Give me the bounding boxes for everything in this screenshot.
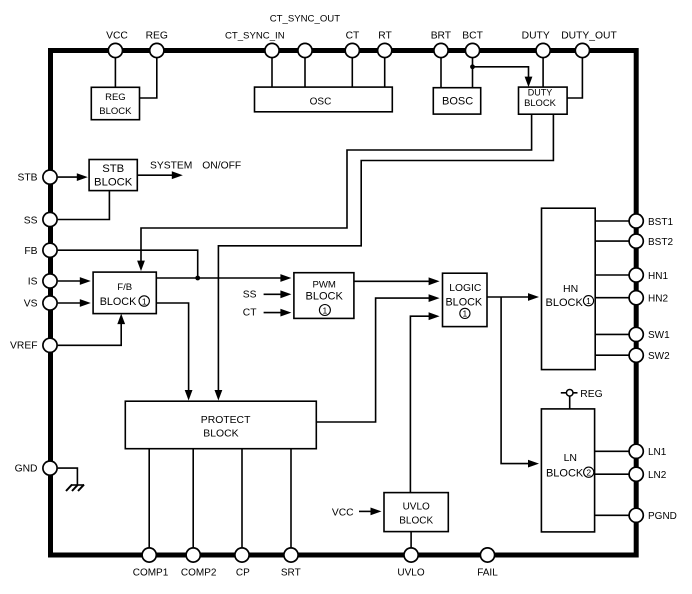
svg-text:BLOCK: BLOCK — [399, 515, 433, 526]
svg-text:CT_SYNC_OUT: CT_SYNC_OUT — [270, 14, 341, 25]
svg-text:UVLO: UVLO — [397, 567, 424, 578]
svg-text:COMP1: COMP1 — [133, 567, 169, 578]
svg-text:PROTECT: PROTECT — [201, 415, 251, 426]
svg-text:2: 2 — [586, 467, 591, 477]
svg-text:STB: STB — [102, 163, 124, 175]
svg-text:SYSTEM: SYSTEM — [150, 160, 192, 171]
svg-text:BLOCK: BLOCK — [306, 290, 344, 302]
svg-text:CT: CT — [243, 308, 257, 319]
svg-text:DUTY: DUTY — [522, 30, 550, 41]
svg-text:BLOCK: BLOCK — [546, 297, 584, 309]
svg-text:BLOCK: BLOCK — [99, 106, 132, 117]
svg-text:CT_SYNC_IN: CT_SYNC_IN — [225, 30, 285, 41]
svg-text:BLOCK: BLOCK — [445, 296, 482, 308]
svg-text:VREF: VREF — [10, 341, 37, 352]
svg-text:VCC: VCC — [106, 30, 128, 41]
svg-text:BLOCK: BLOCK — [524, 97, 557, 108]
svg-text:BST2: BST2 — [648, 237, 673, 248]
svg-text:LN2: LN2 — [648, 470, 667, 481]
svg-text:BRT: BRT — [431, 30, 452, 41]
svg-text:REG: REG — [105, 92, 126, 103]
svg-text:COMP2: COMP2 — [181, 567, 217, 578]
svg-text:CT: CT — [346, 30, 360, 41]
svg-text:VCC: VCC — [332, 508, 354, 519]
svg-text:HN: HN — [563, 283, 578, 295]
svg-text:STB: STB — [17, 173, 37, 184]
svg-text:BLOCK: BLOCK — [94, 177, 133, 189]
svg-text:BCT: BCT — [462, 30, 483, 41]
svg-text:UVLO: UVLO — [403, 501, 430, 512]
svg-text:HN2: HN2 — [648, 294, 668, 305]
svg-text:PWM: PWM — [312, 280, 335, 291]
svg-text:1: 1 — [586, 296, 591, 306]
svg-text:SW1: SW1 — [648, 330, 670, 341]
svg-text:BLOCK: BLOCK — [203, 428, 238, 439]
svg-text:LOGIC: LOGIC — [449, 283, 482, 294]
svg-text:FAIL: FAIL — [477, 567, 498, 578]
svg-text:VS: VS — [24, 299, 38, 310]
svg-text:LN1: LN1 — [648, 447, 667, 458]
svg-text:LN: LN — [564, 452, 577, 464]
svg-text:BST1: BST1 — [648, 217, 673, 228]
svg-text:HN1: HN1 — [648, 271, 668, 282]
svg-text:1: 1 — [142, 296, 147, 306]
svg-text:FB: FB — [24, 246, 37, 257]
svg-text:ON/OFF: ON/OFF — [202, 160, 241, 171]
svg-text:1: 1 — [463, 309, 468, 319]
svg-text:SS: SS — [243, 290, 257, 301]
svg-text:REG: REG — [146, 30, 168, 41]
svg-text:BLOCK: BLOCK — [100, 296, 137, 308]
svg-text:1: 1 — [323, 305, 328, 315]
svg-text:SS: SS — [24, 216, 38, 227]
svg-text:GND: GND — [15, 464, 38, 475]
svg-text:PGND: PGND — [648, 511, 677, 522]
svg-text:REG: REG — [580, 389, 602, 400]
svg-text:DUTY_OUT: DUTY_OUT — [561, 30, 617, 41]
svg-text:BLOCK: BLOCK — [546, 468, 584, 480]
svg-text:SRT: SRT — [281, 567, 301, 578]
svg-text:BOSC: BOSC — [442, 95, 473, 107]
svg-text:IS: IS — [28, 277, 38, 288]
svg-text:SW2: SW2 — [648, 351, 670, 362]
svg-text:F/B: F/B — [117, 282, 132, 293]
svg-text:OSC: OSC — [310, 96, 332, 107]
svg-text:CP: CP — [236, 567, 250, 578]
svg-text:RT: RT — [378, 30, 392, 41]
